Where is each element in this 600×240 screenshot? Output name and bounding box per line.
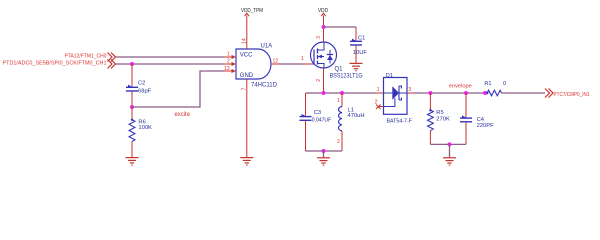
svg-text:0: 0 [503,81,506,87]
wire ground stem [449,144,451,157]
node C2 tap junction [130,62,134,66]
svg-text:470uH: 470uH [348,113,365,119]
transistor Q1 BSS123LT1G [301,42,363,80]
resistor R5 [428,93,450,144]
svg-text:270K: 270K [436,116,450,122]
svg-text:3: 3 [408,87,411,93]
node ground tap junction [322,149,326,153]
svg-text:PTD1/ADC0_SE5B/SPI0_SCK/FTM0_C: PTD1/ADC0_SE5B/SPI0_SCK/FTM0_CH1 [3,61,107,67]
svg-text:3: 3 [316,36,322,39]
svg-text:C4: C4 [477,117,485,123]
diode D1 BAT54-7-F [384,73,413,125]
wire bottom rail [306,150,343,152]
wire excite net [132,71,224,107]
svg-text:220PF: 220PF [477,123,495,129]
svg-text:7: 7 [241,88,247,91]
U1A pin 1 stub [224,51,236,59]
wire envelope net [414,92,488,94]
svg-text:14: 14 [241,38,247,44]
off-page connector PTA12/FTM1_CH0 [65,53,116,62]
node R1 tap junction [483,91,487,95]
resistor R1 [484,81,506,96]
ground under R6 [126,158,139,165]
off-page connector PTC7/CMP0_IN1 [545,89,590,98]
capacitor C3 [300,93,332,151]
D1 pin 3 stub [407,87,414,93]
U1A pin 14 VCC pin [241,16,247,50]
svg-text:BAT54-7-F: BAT54-7-F [387,118,413,124]
svg-text:PTC7/CMP0_IN1: PTC7/CMP0_IN1 [554,92,590,98]
wire bottom rail R5/C4 [430,143,466,145]
svg-text:PTA12/FTM1_CH0: PTA12/FTM1_CH0 [65,54,107,60]
power symbol VDD_TPM [241,8,263,16]
wire source rail to D1 [306,92,377,94]
svg-text:U1A: U1A [261,43,273,49]
svg-text:envelope: envelope [449,83,472,89]
wire VDD to C1 [324,26,357,28]
ground under R5/C4 [443,158,456,165]
node VDD/C1 junction [322,25,326,29]
op-amp U1A (AND gate 74HC11D) body [236,43,278,88]
svg-text:D1: D1 [386,73,393,79]
Q1 source pin 2 [316,68,323,93]
wire net PTA12 to U1A pin1 [116,56,225,58]
wire U1A output to Q1 gate [279,63,303,65]
svg-text:1: 1 [301,56,304,62]
svg-text:10UF: 10UF [353,50,368,56]
wire net PTD1 to U1A pin2 [116,63,225,65]
wire ground stem [323,151,325,157]
node source junction [322,91,326,95]
svg-text:VDD_TPM: VDD_TPM [241,8,263,14]
node ground tap junction [448,142,452,146]
svg-text:R1: R1 [484,81,491,87]
capacitor C2 [126,64,152,107]
svg-text:100K: 100K [138,125,152,131]
svg-text:C2: C2 [138,81,145,87]
off-page connector PTD1/ADC0_SE5B/SPI0_SCK/FTM0_CH1 [3,60,116,69]
svg-text:74HC11D: 74HC11D [251,83,278,89]
svg-text:1: 1 [227,51,230,57]
svg-text:1: 1 [377,87,380,93]
svg-text:R5: R5 [436,110,443,116]
node R5 tap junction [428,91,432,95]
svg-text:2: 2 [227,58,230,64]
capacitor C4 [460,93,494,144]
inductor L1 [337,93,365,151]
D1 pin 1 stub [376,87,384,93]
svg-text:2: 2 [375,100,378,106]
svg-text:12: 12 [273,58,279,64]
svg-text:2: 2 [316,79,322,82]
ground under L1/C3 rail [317,158,330,165]
U1A pin 7 GND pin [241,79,247,157]
ground under C1 [350,63,363,70]
svg-text:BSS123LT1G: BSS123LT1G [330,74,363,80]
svg-text:68pF: 68pF [138,88,152,94]
resistor R6 [129,107,152,157]
ground under U1A [240,158,253,165]
svg-text:VDD: VDD [318,8,328,14]
power symbol VDD [318,8,328,27]
svg-text:13: 13 [224,66,230,72]
capacitor C1 [350,27,367,63]
D1 pin 2 no-connect stub [375,100,384,109]
node L1 top junction [340,91,344,95]
U1A pin 12 output stub [271,58,279,64]
svg-text:C3: C3 [314,110,321,116]
svg-text:C1: C1 [358,35,365,41]
svg-text:excite: excite [175,111,191,118]
U1A pin 2 stub [224,58,236,66]
U1A pin 13 stub [224,66,236,73]
svg-text:2: 2 [337,139,340,145]
svg-text:1: 1 [337,98,340,104]
svg-text:GND: GND [240,73,254,79]
node C2/R6/excite junction [130,105,134,109]
Q1 drain pin 3 [316,27,323,42]
wire R1 to off-page [502,92,546,94]
svg-text:0.047UF: 0.047UF [312,117,332,123]
node C4 tap junction [464,91,468,95]
svg-text:VCC: VCC [240,52,253,58]
svg-text:Q1: Q1 [335,67,344,73]
